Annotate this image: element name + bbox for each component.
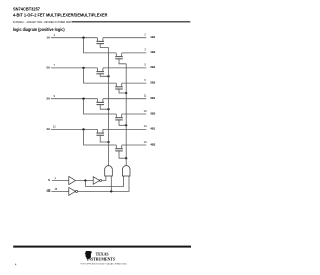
transistor Q5 (3B1 pass FET): [96, 99, 108, 110]
transistor Q3 (2B1 pass FET): [96, 68, 108, 76]
svg-text:SCDS021C – JANUARY 1996 – REVI: SCDS021C – JANUARY 1996 – REVISED OCTOBE…: [13, 20, 71, 24]
wire: input 1A line: [51, 37, 98, 39]
wire: input 2A line: [51, 67, 98, 69]
wire: OE tap up into AND gate U4: [110, 176, 112, 191]
wire: 4B1 output line: [103, 128, 146, 130]
wire: input 4A line: [51, 128, 98, 130]
svg-text:SN74CBT3257: SN74CBT3257: [13, 7, 41, 12]
wire: inverter output to AND gate U4: [102, 176, 106, 181]
TI logo bug: [85, 251, 92, 259]
transistor Q7 (4B1 pass FET): [96, 129, 108, 142]
svg-text:logic diagram (positive logic): logic diagram (positive logic): [13, 27, 65, 33]
wire: input 3A line: [51, 98, 98, 100]
AND gate U4 (B1 select) (points up): [105, 166, 113, 176]
wire: OE input line: [51, 190, 68, 192]
svg-text:2B1: 2B1: [150, 65, 156, 69]
footer rule: [13, 246, 191, 248]
node: 3A tee junction: [82, 98, 84, 100]
wire: 2B1 output line: [103, 67, 146, 69]
node: 4A tee junction: [82, 128, 84, 130]
wire: 1B1 output line: [103, 37, 146, 39]
wire: B2 gate control rail: [125, 64, 127, 166]
header rule: [72, 21, 191, 22]
wire: 2B2 output line: [122, 82, 147, 84]
svg-text:3B2: 3B2: [150, 111, 156, 115]
junction on control rail at Q8 (4B2 pass FET) gate: [125, 157, 127, 159]
node: S branch junction: [84, 179, 86, 181]
svg-text:4A: 4A: [46, 127, 50, 131]
wire: 4B2 output line: [122, 144, 147, 146]
junction on control rail at Q4 (2B2 pass FET) gate: [125, 92, 127, 94]
svg-text:4-BIT 1-OF-2 FET MULTIPLEXER/D: 4-BIT 1-OF-2 FET MULTIPLEXER/DEMULTIPLEX…: [13, 13, 108, 18]
transistor Q1 (1B1 pass FET): [96, 38, 108, 48]
transistor Q8 (4B2 pass FET): [115, 145, 126, 158]
svg-text:3A: 3A: [46, 96, 50, 100]
svg-text:INSTRUMENTS: INSTRUMENTS: [87, 256, 116, 261]
overbar on OE: [47, 189, 50, 191]
AND gate U5 (B2 select) (points up): [122, 166, 130, 176]
svg-text:OE: OE: [46, 189, 50, 193]
wire: 4A branch down to 4B2 row: [84, 129, 117, 145]
wire: OE inverter output to both AND gates: [78, 176, 129, 191]
inverter U3 (OE inverter): [69, 188, 76, 196]
wire: B1 gate control rail: [108, 48, 110, 166]
svg-text:4B2: 4B2: [150, 142, 156, 146]
node: 2A tee junction: [82, 67, 84, 69]
svg-text:POST OFFICE BOX 655303 • DALLA: POST OFFICE BOX 655303 • DALLAS, TEXAS 7…: [81, 263, 128, 266]
svg-text:2A: 2A: [46, 66, 50, 70]
transistor Q6 (3B2 pass FET): [115, 114, 126, 125]
node: OE junction to AND gate U4: [110, 190, 112, 192]
transistor Q4 (2B2 pass FET): [115, 83, 126, 93]
junction on control rail at Q3 (2B1 pass FET) gate: [107, 75, 109, 77]
wire: S input line: [52, 180, 69, 182]
wire: S buffer output: [75, 180, 93, 182]
buffer U1 (S buffer): [69, 176, 76, 184]
svg-text:3B1: 3B1: [150, 96, 156, 100]
wire: 1B2 output line: [122, 52, 147, 54]
junction on control rail at Q5 (3B1 pass FET) gate: [107, 108, 109, 110]
svg-text:1A: 1A: [46, 35, 50, 39]
transistor Q2 (1B2 pass FET): [115, 53, 126, 64]
svg-text:1B1: 1B1: [150, 35, 156, 39]
svg-text:1B2: 1B2: [150, 50, 156, 54]
wire: S branch to AND gate U5: [85, 176, 123, 186]
svg-text:2B2: 2B2: [150, 80, 156, 84]
junction on control rail at Q7 (4B1 pass FET) gate: [107, 141, 109, 143]
wire: 2A branch down to 2B2 row: [84, 68, 117, 83]
wire: 3B2 output line: [122, 113, 147, 115]
wire: 1A branch down to 1B2 row: [84, 38, 117, 53]
wire: 3A branch down to 3B2 row: [84, 99, 117, 114]
inverter U2 (S inverter): [93, 177, 99, 185]
svg-text:S: S: [48, 178, 50, 182]
junction on control rail at Q6 (3B2 pass FET) gate: [125, 124, 127, 126]
node: 1A tee junction: [82, 37, 84, 39]
svg-text:4B1: 4B1: [150, 127, 156, 131]
wire: 3B1 output line: [103, 98, 146, 100]
